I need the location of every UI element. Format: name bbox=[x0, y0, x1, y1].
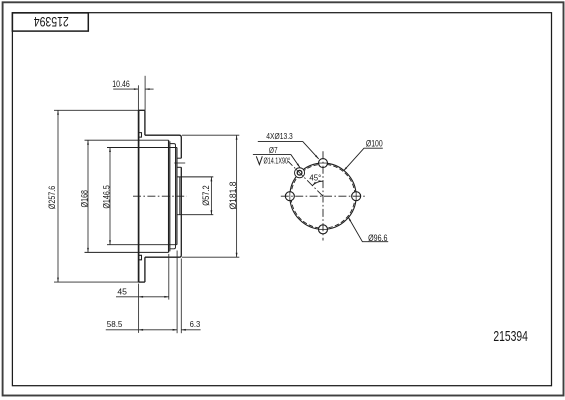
bolt hole left bbox=[285, 192, 294, 201]
svg-text:Ø168: Ø168 bbox=[80, 190, 90, 208]
svg-text:215394: 215394 bbox=[493, 328, 528, 345]
arrow Ø146.5 down bbox=[109, 240, 111, 245]
dim Ø146.5 line bbox=[109, 148, 111, 245]
45° angle arc bbox=[312, 181, 323, 185]
arrow Ø168 up bbox=[87, 140, 89, 145]
dim 10.46 extension left bbox=[137, 85, 139, 110]
diagonal centerline 45° bbox=[288, 161, 323, 196]
title box bbox=[12, 13, 88, 31]
leader Ø96.6 underline bbox=[348, 217, 388, 242]
arrow Ø168 down bbox=[87, 248, 89, 253]
arrow Ø57.2 up bbox=[211, 177, 213, 182]
leader Ø100 underline bbox=[344, 148, 383, 171]
svg-text:Ø96.6: Ø96.6 bbox=[368, 233, 387, 243]
svg-text:45: 45 bbox=[117, 287, 127, 297]
center hole bottom edge (with extension) bbox=[177, 214, 213, 216]
arrow 45 right bbox=[164, 296, 169, 298]
center hole chamfer ring bbox=[179, 177, 181, 215]
leader 4XØ13.3 underline bbox=[258, 142, 319, 159]
arrow Ø181.8 down bbox=[236, 253, 238, 258]
dim 10.46 extension right bbox=[144, 76, 146, 111]
disc bottom edge bbox=[139, 281, 145, 283]
dim Ø181.8 extension bottom bbox=[182, 256, 239, 258]
section view: horizontal axis centerline bbox=[133, 195, 187, 197]
bolt hole left tick bbox=[289, 191, 291, 201]
vertical centerline bbox=[322, 151, 324, 240]
bolt circle Ø100 bbox=[290, 163, 356, 229]
arrow Ø57.2 down bbox=[211, 210, 213, 215]
drum outer surface top and right face upper bbox=[145, 135, 181, 158]
disc left face bbox=[138, 110, 140, 282]
arrow 10.46 pointing left bbox=[145, 88, 150, 90]
bore surface Ø146.5 top line (with extension) bbox=[107, 147, 177, 149]
dim Ø257.6 extension bottom bbox=[54, 281, 139, 283]
countersink hole diagonal tick bbox=[296, 169, 303, 176]
arrow leader 4XØ13.3 bbox=[315, 155, 319, 159]
disc right face lower segment bbox=[144, 257, 146, 282]
dim 10.46 line left tail bbox=[113, 88, 138, 90]
arrow 45 left bbox=[139, 296, 144, 298]
hole Ø7 bbox=[297, 170, 302, 175]
bolt hole centerline bbox=[174, 162, 185, 164]
arrow 58.5 left bbox=[139, 329, 144, 331]
arrow leader Ø96.6 bbox=[348, 217, 351, 221]
svg-text:Ø181.8: Ø181.8 bbox=[228, 182, 238, 210]
bolt hole bottom tick bbox=[318, 228, 328, 230]
bore surface Ø168 bottom line (with extension) bbox=[85, 251, 169, 253]
mounting face chamfer ring bbox=[169, 141, 171, 251]
svg-text:Ø14.1X90°: Ø14.1X90° bbox=[264, 156, 291, 166]
dim 45 line bbox=[116, 296, 169, 298]
bolt hole right tick bbox=[355, 191, 357, 201]
arrow arc end at vertical bbox=[319, 180, 324, 182]
leader Ø7 / countersink shared line bbox=[253, 155, 300, 168]
dim Ø181.8 extension top bbox=[182, 134, 239, 136]
dim 45 extension right bbox=[168, 254, 170, 300]
svg-text:4XØ13.3: 4XØ13.3 bbox=[266, 131, 293, 141]
bolt hole top bbox=[319, 159, 328, 168]
step recess profile bbox=[170, 144, 176, 249]
dim 45 extension left bbox=[138, 284, 140, 333]
horizontal centerline bbox=[281, 195, 367, 197]
countersink Ø14.1 bbox=[295, 168, 305, 178]
svg-text:Ø7: Ø7 bbox=[269, 145, 278, 155]
bolt pattern view bbox=[288, 161, 356, 229]
svg-text:215394: 215394 bbox=[34, 14, 69, 30]
bore surface Ø168 top line (with extension) bbox=[85, 139, 169, 141]
arrow Ø257.6 down bbox=[57, 278, 59, 283]
dim 6.3 line right tail bbox=[181, 329, 200, 331]
disc right face upper segment bbox=[144, 110, 146, 135]
arrow arc end at diagonal bbox=[312, 182, 316, 186]
arrow 6.3 right outside bbox=[181, 329, 186, 331]
disc top edge bbox=[139, 109, 145, 111]
arrow leader Ø100 bbox=[344, 167, 348, 171]
notch bottom at hat junction bbox=[139, 255, 142, 259]
dim Ø257.6 extension top bbox=[54, 109, 139, 111]
svg-text:45°: 45° bbox=[309, 173, 321, 183]
notch top at hat junction bbox=[139, 133, 142, 138]
svg-text:Ø146.5: Ø146.5 bbox=[101, 185, 111, 209]
countersink V symbol bbox=[256, 156, 262, 164]
dim Ø168 line bbox=[87, 140, 89, 252]
svg-text:Ø57.2: Ø57.2 bbox=[201, 185, 211, 206]
dim Ø257.6 line bbox=[57, 110, 59, 282]
bolt hole bottom bbox=[319, 225, 328, 234]
dim 6.3 extension right bbox=[180, 259, 182, 334]
arrow Ø181.8 up bbox=[236, 135, 238, 140]
svg-text:6.3: 6.3 bbox=[190, 319, 201, 329]
dim Ø57.2 line bbox=[210, 177, 212, 215]
arrow 10.46 pointing right bbox=[134, 88, 139, 90]
dim 58.5 line bbox=[106, 329, 177, 331]
svg-text:10.46: 10.46 bbox=[112, 79, 130, 89]
bolt hole bottom edge in section bbox=[177, 166, 181, 168]
bore surface Ø146.5 bottom line (with extension) bbox=[107, 244, 177, 246]
arrow 58.5 right / 6.3 left outside bbox=[173, 329, 178, 331]
dim 6.3 extension left bbox=[176, 251, 178, 334]
dim 10.46 line right tail bbox=[145, 88, 154, 90]
arrow Ø146.5 up bbox=[109, 148, 111, 153]
bolt hole right bbox=[352, 192, 361, 201]
dim Ø181.8 line bbox=[236, 135, 238, 257]
svg-text:Ø257.6: Ø257.6 bbox=[47, 186, 57, 209]
mounting face bbox=[168, 140, 170, 252]
bolt hole top edge in section bbox=[177, 157, 181, 159]
arrow Ø257.6 up bbox=[57, 110, 59, 115]
svg-text:58.5: 58.5 bbox=[107, 319, 123, 329]
circle Ø96.6 dashed bbox=[291, 164, 355, 228]
web inner face bbox=[176, 148, 178, 245]
svg-text:Ø100: Ø100 bbox=[366, 139, 383, 149]
drum right face lower and outer surface bottom bbox=[145, 167, 181, 257]
center hole top edge (with extension) bbox=[177, 176, 213, 178]
bolt hole top tick bbox=[318, 162, 328, 164]
arrow leader countersink bbox=[297, 163, 300, 167]
